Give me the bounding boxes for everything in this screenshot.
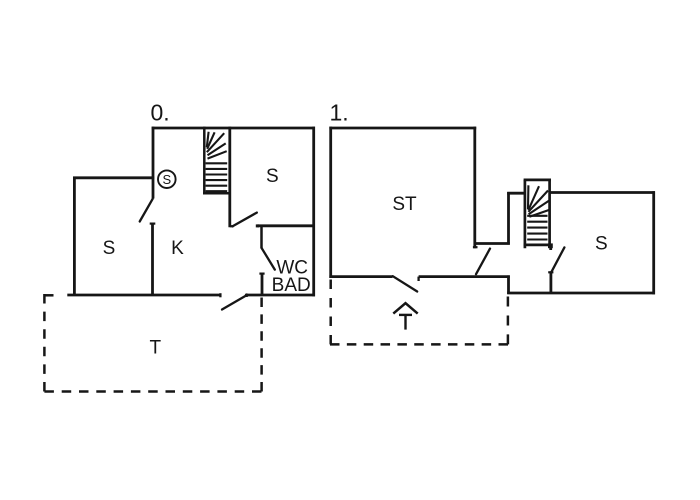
wall: divider between S and K (150, 224, 156, 296)
wall: ground floor upper left (152, 127, 155, 199)
wall: first floor S room top (549, 191, 656, 194)
symbol: circled S (switch) (158, 170, 176, 188)
svg-text:S: S (595, 233, 608, 254)
wall: left room S left (73, 177, 76, 297)
door leaf: terrace door in bottom wall (222, 293, 248, 309)
svg-text:0.: 0. (151, 100, 170, 126)
symbol: terrace access arrow T (393, 303, 417, 329)
door leaf: entry between S and K (upper) (140, 199, 153, 222)
stairs ground floor: box (203, 127, 230, 195)
svg-text:S: S (162, 172, 171, 187)
svg-text:T: T (149, 338, 161, 359)
door leaf: first floor terrace door (393, 276, 417, 291)
wall: S room left lower (550, 272, 553, 294)
wall: first floor bottom mid segment (419, 277, 510, 281)
stairs first floor: corner block (548, 243, 553, 248)
wall: first floor right (652, 191, 655, 294)
dashed terrace ground floor (44, 294, 261, 392)
wall: ground floor bottom right segment (247, 294, 315, 297)
wall: right of ground stairs (230, 127, 234, 228)
wall: first floor step vertical (507, 275, 510, 294)
wall: ground floor right (312, 127, 315, 297)
wall: WC BAD left upper (260, 226, 263, 249)
stairs ground floor: straight treads (206, 163, 228, 191)
wall: first floor bottom left segment (329, 275, 392, 278)
wall: hallway bottom (stairwell) (474, 242, 510, 245)
svg-text:1.: 1. (330, 100, 349, 126)
wall: hallway top to stairs (507, 192, 525, 195)
svg-text:BAD: BAD (272, 275, 311, 296)
wall: WC BAD top (257, 224, 315, 227)
wall: first floor bottom right (507, 292, 655, 295)
door leaf: WC BAD door (262, 248, 275, 270)
wall: S room left stub (549, 245, 552, 250)
wall: ground floor bottom left segment (67, 293, 220, 297)
wall: ground floor top (152, 127, 315, 130)
svg-text:S: S (103, 238, 116, 259)
wall: ST right (473, 127, 478, 249)
door leaf: S room door right of stairs (232, 213, 256, 227)
svg-text:K: K (171, 238, 184, 259)
dashed terrace first floor (330, 280, 508, 345)
door leaf: ST exit door (476, 249, 490, 275)
wall: WC BAD left lower (259, 274, 264, 296)
stairs first floor: winder fan treads (528, 185, 549, 217)
door leaf: first floor S room door (548, 247, 564, 273)
stairs first floor: straight treads (527, 216, 547, 240)
stairs ground floor: winder fan treads (207, 132, 227, 159)
svg-text:ST: ST (392, 194, 417, 215)
svg-text:S: S (266, 166, 279, 187)
wall: hallway vertical (507, 192, 510, 245)
wall: first floor top (329, 127, 476, 130)
wall: first floor left (329, 127, 332, 278)
wall: left room S top (73, 176, 154, 179)
stairs first floor: box (524, 179, 551, 249)
